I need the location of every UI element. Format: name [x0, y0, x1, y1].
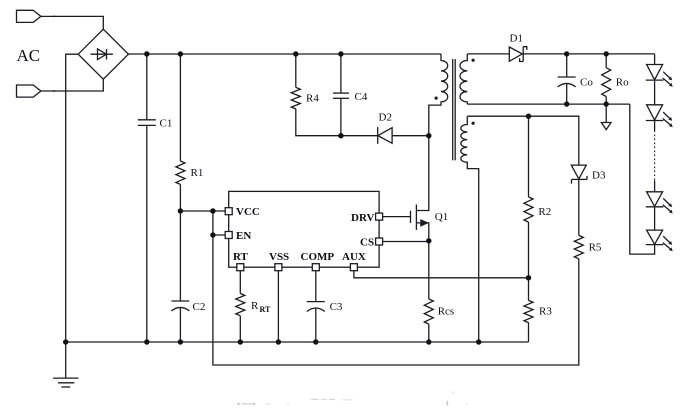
svg-text:C3: C3 [330, 301, 343, 313]
pin VCC [225, 208, 232, 215]
svg-text:Co: Co [580, 77, 593, 89]
svg-text:C4: C4 [355, 91, 368, 103]
node gnd C2 [178, 339, 183, 344]
capacitor C1 [138, 54, 156, 342]
terminal AC input top [17, 10, 41, 22]
capacitor C4 [333, 54, 349, 136]
svg-text:R: R [251, 300, 259, 312]
wire output bottom rail [467, 103, 630, 105]
svg-text:VCC: VCC [236, 206, 260, 218]
svg-text:DRV: DRV [351, 212, 375, 224]
node gnd RRT [238, 339, 243, 344]
resistor Ro [602, 54, 611, 104]
transformer core [453, 59, 456, 160]
node VCC R1 [178, 208, 183, 213]
zener D3 [571, 165, 587, 235]
wire EN feed [213, 211, 225, 235]
LED LD2 [646, 105, 673, 127]
node secondary dot [472, 59, 475, 62]
node out bottom Co [564, 101, 569, 106]
wire aux top to divider [467, 116, 579, 165]
transformer primary winding [429, 54, 448, 136]
svg-text:Q1: Q1 [435, 211, 448, 223]
node AC wire speck bottom [53, 90, 55, 92]
svg-text:VSS: VSS [269, 251, 289, 263]
svg-text:R5: R5 [589, 242, 602, 254]
node D2 primary [426, 133, 431, 138]
node top rail R4 [293, 51, 298, 56]
svg-text:AUX: AUX [342, 251, 366, 263]
node EN [210, 232, 215, 237]
svg-text:EN: EN [236, 230, 251, 242]
resistor R2 [524, 116, 533, 278]
node top rail C4 [338, 51, 343, 56]
node Q1 source CS [426, 238, 431, 243]
node aux top R2 [526, 114, 531, 119]
svg-text:R1: R1 [191, 167, 204, 179]
node snubber C4 bottom [338, 133, 343, 138]
pin AUX [350, 264, 357, 271]
wire top rail [128, 53, 441, 55]
svg-text:Ro: Ro [616, 77, 629, 89]
svg-text:COMP: COMP [301, 251, 335, 263]
svg-text:Rcs: Rcs [438, 306, 455, 318]
wire EN sense down and across [213, 235, 579, 365]
pin CS [376, 238, 383, 245]
svg-text:AC: AC [17, 46, 41, 65]
svg-text:R4: R4 [306, 93, 319, 105]
wire LED3 up solid [654, 181, 656, 192]
svg-text:D2: D2 [379, 112, 392, 124]
resistor R5 [574, 235, 583, 258]
wire AUX to divider [354, 271, 529, 278]
wire VSS to ground [277, 271, 279, 342]
svg-text:RT: RT [233, 251, 249, 263]
wire LED3-LED4 [654, 207, 656, 230]
resistor RRT [236, 271, 245, 342]
resistor Rcs [424, 241, 433, 342]
LED LD4 [646, 230, 673, 251]
wire DRV to gate [383, 216, 411, 218]
node gnd Rcs [426, 339, 431, 344]
terminal AC input bottom [17, 85, 41, 97]
node gnd aux [476, 339, 481, 344]
ground output arrow [601, 104, 611, 130]
node gnd C1 [144, 339, 149, 344]
resistor R1 [176, 54, 185, 211]
LED string wire top [654, 54, 656, 65]
transformer secondary winding [460, 54, 467, 104]
capacitor Co [558, 54, 576, 104]
wire LED2 down solid [654, 121, 656, 131]
svg-text:C2: C2 [193, 301, 206, 313]
bridge rectifier BR [78, 29, 128, 79]
node gnd VSS [276, 339, 281, 344]
diode D2 [341, 127, 429, 144]
node aux dot [472, 122, 475, 125]
node VCC EN split [210, 208, 215, 213]
node out top Ro [604, 51, 609, 56]
svg-text:CS: CS [360, 237, 374, 249]
svg-text:D3: D3 [592, 170, 606, 182]
op-amp U1 controller box [229, 191, 379, 267]
node top rail C1 [144, 51, 149, 56]
wire dotted LED continuation [654, 131, 656, 181]
node out bottom Ro [604, 101, 609, 106]
capacitor C3 [307, 271, 325, 342]
wire LED1-LED2 [654, 80, 656, 105]
wire bridge negative to ground rail [66, 54, 79, 342]
wire faint caption remnants [238, 392, 468, 406]
node primary dot [435, 97, 438, 100]
pin VSS [275, 264, 282, 271]
LED LD1 [646, 65, 673, 87]
wire VCC feed [180, 210, 225, 212]
svg-text:R2: R2 [538, 206, 551, 218]
pin EN [225, 232, 232, 239]
wire LED return [630, 104, 655, 254]
wire secondary top to D1 [467, 53, 509, 55]
pin DRV [376, 213, 383, 220]
svg-text:C1: C1 [160, 118, 173, 130]
node gnd C3 [313, 339, 318, 344]
pin COMP [312, 264, 319, 271]
diode D1 [509, 47, 654, 62]
svg-text:RT: RT [260, 305, 271, 314]
ground [53, 342, 78, 387]
wire ground rail [66, 341, 529, 343]
capacitor C2 [171, 211, 189, 342]
node AUX divider [526, 275, 531, 280]
wire AC bottom to bridge [41, 79, 103, 91]
transistor Q1 [411, 136, 429, 241]
LED LD3 [646, 192, 673, 214]
resistor R4 [291, 54, 341, 136]
transformer aux winding [461, 116, 479, 342]
svg-text:R3: R3 [539, 306, 552, 318]
svg-text:D1: D1 [510, 33, 523, 45]
node top rail R1 [178, 51, 183, 56]
resistor R3 [524, 278, 533, 342]
node gnd left [63, 339, 68, 344]
wire AC top to bridge [41, 16, 103, 29]
pin RT [237, 264, 244, 271]
node AC wire speck top [53, 16, 55, 18]
wire CS to source [383, 241, 429, 243]
node out top Co [564, 51, 569, 56]
